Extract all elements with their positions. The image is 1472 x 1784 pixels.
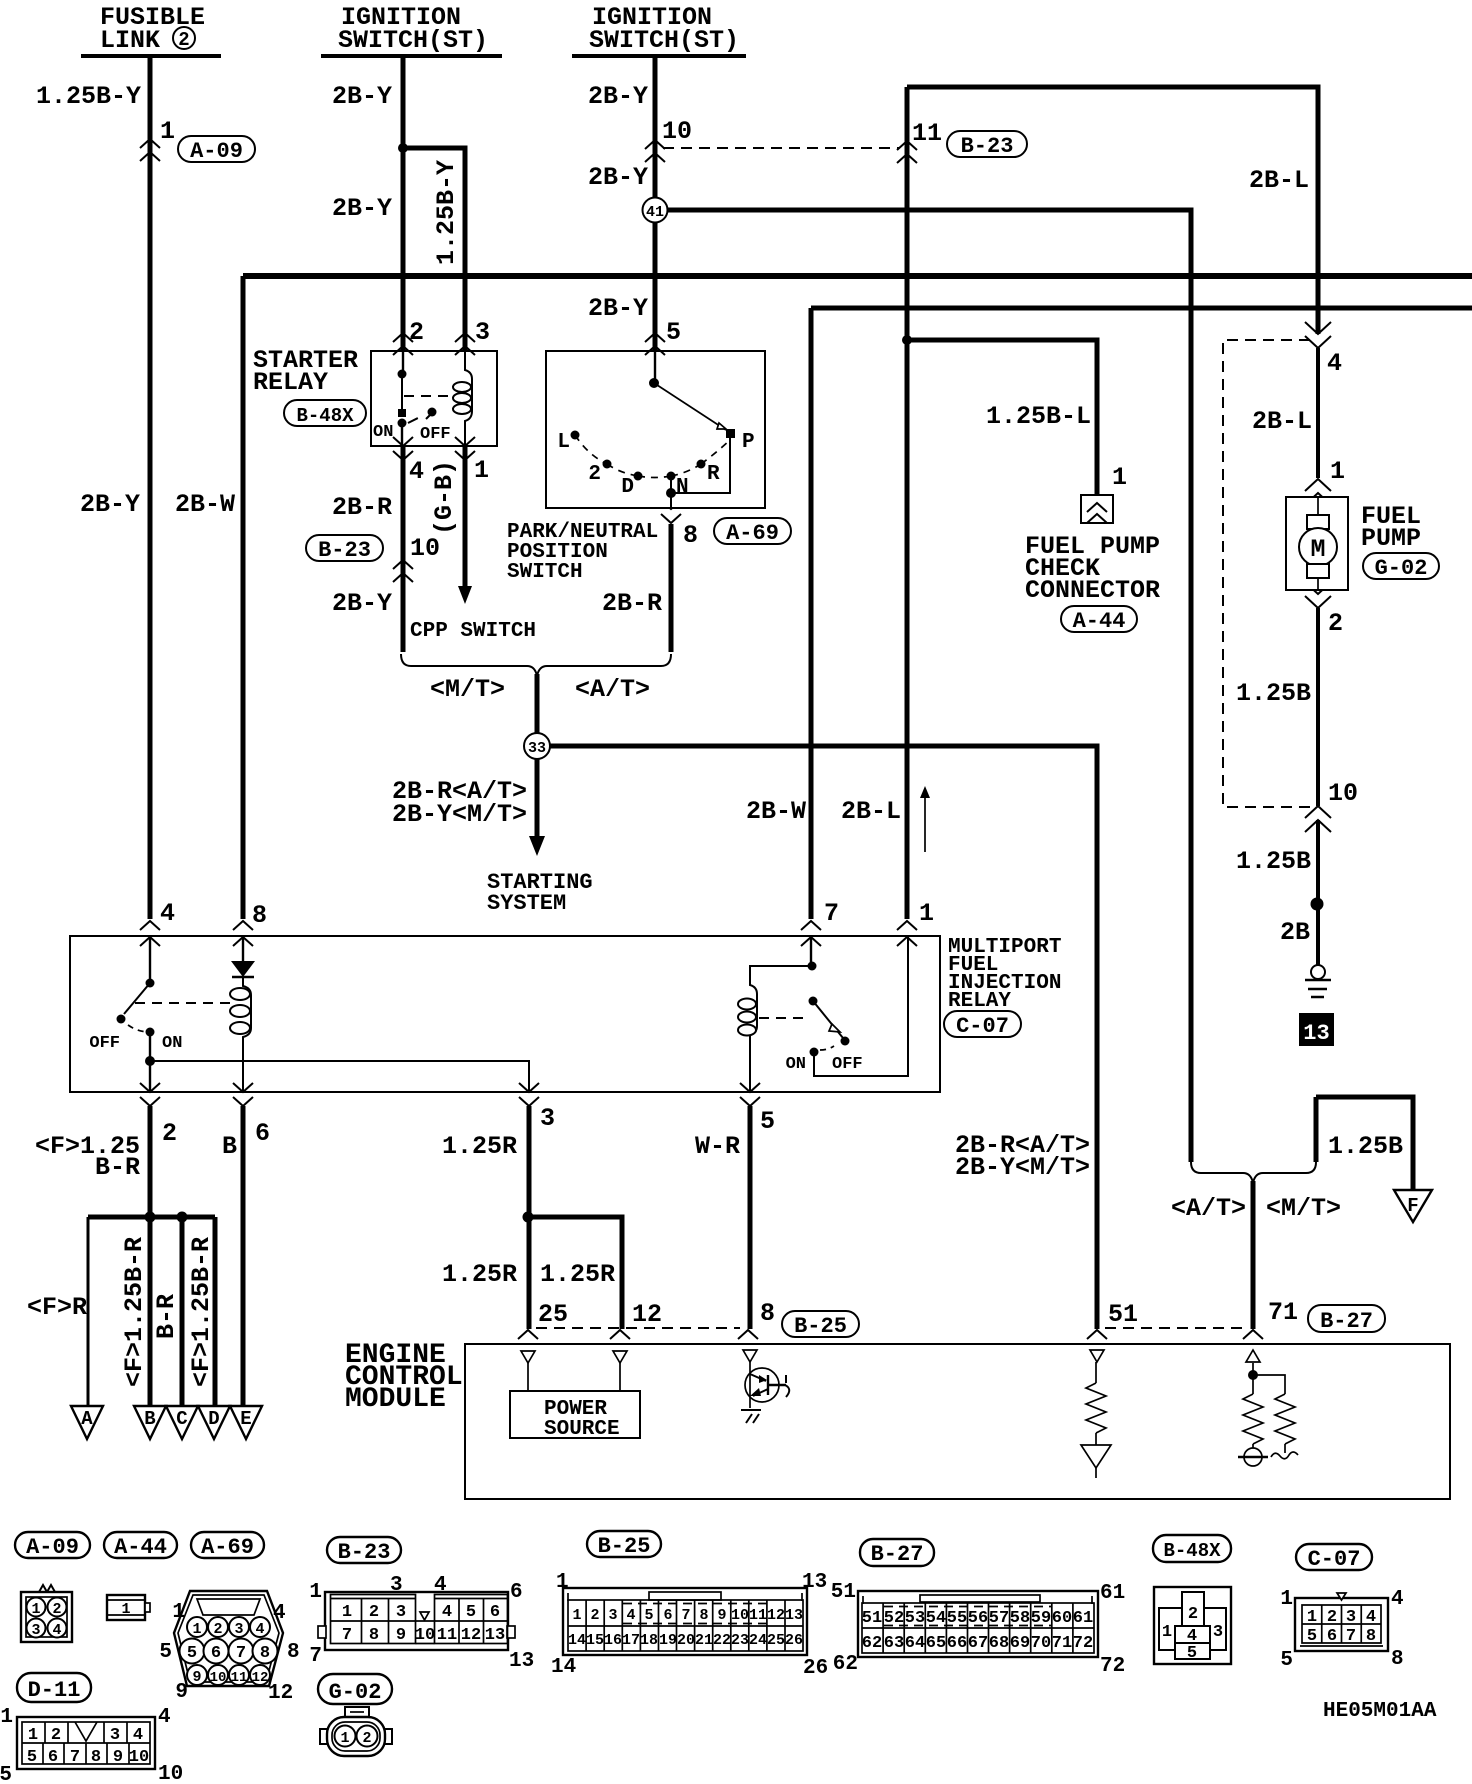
- svg-text:2: 2: [362, 1730, 371, 1747]
- svg-text:3: 3: [1213, 1623, 1223, 1642]
- svg-text:25: 25: [538, 1300, 568, 1329]
- svg-text:26: 26: [785, 1632, 803, 1649]
- svg-text:57: 57: [989, 1609, 1009, 1628]
- svg-text:66: 66: [947, 1634, 967, 1653]
- svg-text:17: 17: [622, 1632, 640, 1649]
- svg-text:4: 4: [52, 1622, 61, 1639]
- svg-text:D-11: D-11: [28, 1678, 81, 1703]
- svg-text:A-44: A-44: [1073, 609, 1126, 634]
- svg-text:5: 5: [159, 1641, 172, 1664]
- svg-text:6: 6: [490, 1603, 500, 1622]
- svg-text:W-R: W-R: [695, 1132, 740, 1161]
- svg-text:7: 7: [681, 1607, 690, 1624]
- svg-text:LINK: LINK: [100, 26, 160, 55]
- svg-text:1: 1: [1280, 1588, 1293, 1611]
- svg-text:2: 2: [178, 29, 189, 51]
- svg-text:7: 7: [342, 1626, 352, 1645]
- svg-text:20: 20: [677, 1632, 695, 1649]
- svg-text:3: 3: [608, 1607, 617, 1624]
- svg-text:3: 3: [396, 1603, 406, 1622]
- svg-text:MODULE: MODULE: [345, 1384, 446, 1415]
- svg-text:8: 8: [260, 1644, 270, 1663]
- svg-text:M: M: [1310, 535, 1325, 564]
- svg-text:SWITCH(ST): SWITCH(ST): [589, 26, 739, 55]
- svg-text:10: 10: [158, 1763, 183, 1784]
- svg-text:2B-Y: 2B-Y: [588, 82, 648, 111]
- svg-text:5: 5: [666, 318, 681, 347]
- svg-text:11: 11: [912, 119, 942, 148]
- svg-text:B-27: B-27: [1320, 1309, 1373, 1334]
- svg-text:1: 1: [340, 1730, 349, 1747]
- svg-text:19: 19: [659, 1632, 677, 1649]
- svg-text:10: 10: [410, 534, 440, 563]
- svg-text:3: 3: [31, 1622, 40, 1639]
- svg-text:D: D: [621, 476, 634, 499]
- svg-text:SWITCH: SWITCH: [507, 561, 583, 584]
- svg-text:10: 10: [1328, 779, 1358, 808]
- svg-text:C: C: [176, 1408, 187, 1430]
- svg-text:L: L: [557, 431, 570, 454]
- svg-text:A-69: A-69: [726, 521, 779, 546]
- svg-text:2: 2: [213, 1621, 222, 1638]
- svg-text:26: 26: [803, 1657, 828, 1680]
- svg-text:2B-Y: 2B-Y: [80, 490, 140, 519]
- svg-text:4: 4: [442, 1603, 452, 1622]
- svg-text:SOURCE: SOURCE: [544, 1418, 620, 1441]
- svg-text:8: 8: [252, 901, 267, 930]
- svg-text:6: 6: [1327, 1627, 1337, 1646]
- svg-text:15: 15: [586, 1632, 604, 1649]
- svg-text:2B-W: 2B-W: [746, 797, 806, 826]
- svg-text:4: 4: [133, 1726, 143, 1745]
- svg-text:7: 7: [309, 1645, 322, 1668]
- svg-text:HE05M01AA: HE05M01AA: [1323, 1700, 1437, 1723]
- svg-text:4: 4: [273, 1602, 286, 1625]
- svg-text:B-23: B-23: [961, 134, 1014, 159]
- svg-text:B-27: B-27: [871, 1542, 924, 1567]
- svg-text:59: 59: [1031, 1609, 1051, 1628]
- svg-text:1.25B: 1.25B: [1328, 1132, 1403, 1161]
- svg-text:1: 1: [474, 456, 489, 485]
- svg-text:4: 4: [1391, 1588, 1404, 1611]
- svg-text:65: 65: [926, 1634, 946, 1653]
- svg-text:SWITCH(ST): SWITCH(ST): [338, 26, 488, 55]
- svg-text:6: 6: [48, 1748, 58, 1767]
- svg-text:1.25B: 1.25B: [1236, 847, 1311, 876]
- svg-text:1: 1: [309, 1581, 322, 1604]
- svg-text:B-R: B-R: [152, 1294, 181, 1339]
- svg-text:1: 1: [192, 1621, 201, 1638]
- svg-text:13: 13: [509, 1650, 534, 1673]
- svg-text:2: 2: [409, 318, 424, 347]
- svg-text:9: 9: [717, 1607, 726, 1624]
- svg-text:60: 60: [1052, 1609, 1072, 1628]
- svg-text:63: 63: [884, 1634, 904, 1653]
- svg-text:41: 41: [646, 204, 664, 221]
- svg-text:11: 11: [231, 1670, 248, 1686]
- svg-text:ON: ON: [786, 1055, 806, 1074]
- svg-text:10: 10: [210, 1670, 227, 1686]
- svg-text:13: 13: [802, 1571, 827, 1594]
- svg-text:2: 2: [590, 1607, 599, 1624]
- svg-text:6: 6: [663, 1607, 672, 1624]
- svg-text:33: 33: [528, 740, 546, 757]
- svg-text:1: 1: [28, 1726, 38, 1745]
- svg-text:4: 4: [158, 1706, 171, 1729]
- svg-text:71: 71: [1052, 1634, 1072, 1653]
- svg-text:18: 18: [640, 1632, 658, 1649]
- svg-text:1: 1: [1330, 457, 1345, 486]
- svg-text:PUMP: PUMP: [1361, 524, 1421, 553]
- svg-text:9: 9: [192, 1669, 201, 1686]
- svg-text:E: E: [240, 1408, 251, 1430]
- svg-text:2B-Y<M/T>: 2B-Y<M/T>: [955, 1153, 1090, 1182]
- svg-text:23: 23: [731, 1632, 749, 1649]
- svg-text:<M/T>: <M/T>: [430, 675, 505, 704]
- svg-text:61: 61: [1073, 1609, 1093, 1628]
- svg-text:68: 68: [989, 1634, 1009, 1653]
- svg-text:ON: ON: [373, 423, 393, 442]
- svg-text:2: 2: [162, 1119, 177, 1148]
- svg-text:SYSTEM: SYSTEM: [487, 891, 566, 916]
- svg-text:RELAY: RELAY: [948, 990, 1011, 1013]
- svg-text:8: 8: [1391, 1648, 1404, 1671]
- svg-text:4: 4: [160, 899, 175, 928]
- svg-text:8: 8: [1366, 1627, 1376, 1646]
- svg-text:5: 5: [1187, 1644, 1197, 1663]
- svg-text:24: 24: [749, 1632, 767, 1649]
- svg-text:1.25B-Y: 1.25B-Y: [432, 160, 461, 265]
- svg-text:3: 3: [475, 318, 490, 347]
- svg-text:2B-Y: 2B-Y: [588, 294, 648, 323]
- svg-text:CPP SWITCH: CPP SWITCH: [410, 620, 536, 643]
- svg-text:5: 5: [760, 1107, 775, 1136]
- svg-text:2B-Y: 2B-Y: [588, 163, 648, 192]
- svg-text:72: 72: [1073, 1634, 1093, 1653]
- svg-text:5: 5: [187, 1644, 197, 1663]
- svg-text:16: 16: [604, 1632, 622, 1649]
- svg-text:6: 6: [255, 1119, 270, 1148]
- svg-text:1.25B: 1.25B: [1236, 679, 1311, 708]
- svg-text:56: 56: [968, 1609, 988, 1628]
- svg-text:RELAY: RELAY: [253, 368, 328, 397]
- svg-text:62: 62: [862, 1634, 882, 1653]
- svg-text:67: 67: [968, 1634, 988, 1653]
- svg-text:B-48X: B-48X: [296, 405, 354, 427]
- svg-text:<F>1.25B-R: <F>1.25B-R: [120, 1237, 149, 1387]
- svg-text:<A/T>: <A/T>: [1171, 1194, 1246, 1223]
- svg-text:62: 62: [833, 1653, 858, 1676]
- svg-text:1.25B-Y: 1.25B-Y: [36, 82, 141, 111]
- svg-text:1: 1: [919, 899, 934, 928]
- svg-text:OFF: OFF: [89, 1034, 120, 1053]
- svg-text:2B-R: 2B-R: [332, 493, 392, 522]
- svg-text:2: 2: [588, 463, 601, 486]
- svg-text:<A/T>: <A/T>: [575, 675, 650, 704]
- svg-text:3: 3: [540, 1104, 555, 1133]
- svg-text:1: 1: [342, 1603, 352, 1622]
- svg-text:51: 51: [1108, 1300, 1138, 1329]
- svg-text:C-07: C-07: [1308, 1547, 1361, 1572]
- svg-text:P: P: [742, 431, 755, 454]
- svg-text:1: 1: [1112, 463, 1127, 492]
- svg-text:4: 4: [434, 1574, 447, 1597]
- svg-text:2B-Y: 2B-Y: [332, 194, 392, 223]
- svg-text:7: 7: [70, 1748, 80, 1767]
- svg-text:2: 2: [51, 1726, 61, 1745]
- svg-text:1.25R: 1.25R: [442, 1132, 517, 1161]
- svg-text:2: 2: [52, 1601, 61, 1618]
- svg-text:58: 58: [1010, 1609, 1030, 1628]
- svg-text:<M/T>: <M/T>: [1266, 1194, 1341, 1223]
- svg-text:10: 10: [662, 117, 692, 146]
- svg-text:C-07: C-07: [956, 1014, 1009, 1039]
- svg-text:8: 8: [287, 1641, 300, 1664]
- svg-text:A-44: A-44: [114, 1535, 167, 1560]
- svg-text:6: 6: [211, 1644, 221, 1663]
- svg-text:13: 13: [785, 1607, 803, 1624]
- svg-text:54: 54: [926, 1609, 946, 1628]
- svg-text:7: 7: [1346, 1627, 1356, 1646]
- svg-text:B: B: [222, 1132, 237, 1161]
- svg-text:5: 5: [0, 1764, 12, 1784]
- svg-text:F: F: [1407, 1195, 1418, 1217]
- svg-text:10: 10: [731, 1607, 749, 1624]
- svg-text:10: 10: [415, 1626, 435, 1645]
- svg-text:1.25R: 1.25R: [540, 1260, 615, 1289]
- svg-text:21: 21: [695, 1632, 713, 1649]
- svg-text:7: 7: [824, 899, 839, 928]
- svg-text:1: 1: [556, 1571, 569, 1594]
- svg-text:A-09: A-09: [26, 1535, 79, 1560]
- svg-text:9: 9: [113, 1748, 123, 1767]
- svg-text:2B-Y: 2B-Y: [332, 589, 392, 618]
- svg-text:2: 2: [1328, 609, 1343, 638]
- svg-text:OFF: OFF: [420, 425, 451, 444]
- svg-text:51: 51: [862, 1609, 882, 1628]
- svg-text:64: 64: [905, 1634, 925, 1653]
- svg-text:9: 9: [396, 1626, 406, 1645]
- svg-text:13: 13: [485, 1626, 505, 1645]
- svg-text:5: 5: [27, 1748, 37, 1767]
- svg-text:4: 4: [409, 457, 424, 486]
- svg-text:4: 4: [1366, 1608, 1376, 1627]
- svg-text:52: 52: [884, 1609, 904, 1628]
- svg-text:A-69: A-69: [201, 1535, 254, 1560]
- svg-text:5: 5: [1307, 1627, 1317, 1646]
- svg-text:B-23: B-23: [318, 538, 371, 563]
- svg-text:55: 55: [947, 1609, 967, 1628]
- svg-text:2B-L: 2B-L: [1249, 166, 1309, 195]
- svg-text:2: 2: [1327, 1608, 1337, 1627]
- svg-text:12: 12: [632, 1300, 662, 1329]
- svg-text:14: 14: [568, 1632, 586, 1649]
- svg-text:OFF: OFF: [832, 1055, 863, 1074]
- svg-text:1.25B-L: 1.25B-L: [986, 402, 1091, 431]
- svg-text:22: 22: [713, 1632, 731, 1649]
- svg-text:8: 8: [91, 1748, 101, 1767]
- svg-text:12: 12: [252, 1670, 269, 1686]
- svg-text:D: D: [208, 1408, 219, 1430]
- svg-text:14: 14: [551, 1656, 576, 1679]
- svg-text:61: 61: [1100, 1582, 1125, 1605]
- svg-text:1.25R: 1.25R: [442, 1260, 517, 1289]
- svg-text:B-48X: B-48X: [1163, 1540, 1221, 1562]
- svg-text:53: 53: [905, 1609, 925, 1628]
- svg-text:ON: ON: [162, 1034, 182, 1053]
- svg-text:1: 1: [572, 1607, 581, 1624]
- svg-text:13: 13: [1303, 1021, 1329, 1046]
- svg-text:2B-Y<M/T>: 2B-Y<M/T>: [392, 800, 527, 829]
- svg-text:8: 8: [369, 1626, 379, 1645]
- svg-text:72: 72: [1100, 1655, 1125, 1678]
- svg-text:8: 8: [699, 1607, 708, 1624]
- svg-text:71: 71: [1268, 1298, 1298, 1327]
- svg-text:12: 12: [767, 1607, 785, 1624]
- svg-text:B: B: [144, 1408, 155, 1430]
- svg-text:2B-W: 2B-W: [175, 490, 235, 519]
- svg-text:A: A: [81, 1408, 93, 1430]
- svg-text:69: 69: [1010, 1634, 1030, 1653]
- svg-text:(G-B): (G-B): [430, 460, 459, 535]
- svg-text:5: 5: [466, 1603, 476, 1622]
- svg-text:7: 7: [236, 1644, 246, 1663]
- svg-text:1: 1: [1162, 1623, 1172, 1642]
- svg-text:B-25: B-25: [598, 1534, 651, 1559]
- svg-text:1: 1: [1307, 1608, 1317, 1627]
- svg-text:2B-R: 2B-R: [602, 589, 662, 618]
- svg-text:2B-L: 2B-L: [1252, 407, 1312, 436]
- svg-text:4: 4: [1327, 349, 1342, 378]
- svg-text:5: 5: [1280, 1649, 1293, 1672]
- svg-text:B-23: B-23: [338, 1540, 391, 1565]
- svg-text:25: 25: [767, 1632, 785, 1649]
- svg-text:3: 3: [390, 1574, 403, 1597]
- svg-text:B-25: B-25: [794, 1314, 847, 1339]
- svg-text:G-02: G-02: [1375, 556, 1428, 581]
- svg-text:CONNECTOR: CONNECTOR: [1025, 576, 1160, 605]
- svg-text:8: 8: [760, 1299, 775, 1328]
- svg-text:12: 12: [461, 1626, 481, 1645]
- svg-text:5: 5: [644, 1607, 653, 1624]
- svg-text:2: 2: [1188, 1605, 1198, 1624]
- svg-text:2B-L: 2B-L: [841, 797, 901, 826]
- svg-text:4: 4: [626, 1607, 635, 1624]
- svg-text:3: 3: [110, 1726, 120, 1745]
- svg-text:R: R: [707, 463, 720, 486]
- svg-text:A-09: A-09: [190, 139, 243, 164]
- svg-text:11: 11: [749, 1607, 767, 1624]
- svg-text:G-02: G-02: [329, 1680, 382, 1705]
- svg-text:9: 9: [175, 1681, 188, 1704]
- svg-text:4: 4: [255, 1621, 264, 1638]
- svg-text:1: 1: [121, 1601, 130, 1618]
- svg-text:3: 3: [234, 1621, 243, 1638]
- svg-text:51: 51: [831, 1581, 856, 1604]
- svg-text:10: 10: [129, 1748, 149, 1767]
- svg-text:1: 1: [172, 1601, 185, 1624]
- svg-text:8: 8: [683, 521, 698, 550]
- svg-text:N: N: [676, 476, 689, 499]
- svg-text:70: 70: [1031, 1634, 1051, 1653]
- svg-text:2: 2: [369, 1603, 379, 1622]
- svg-text:11: 11: [437, 1626, 457, 1645]
- svg-text:2B: 2B: [1280, 918, 1310, 947]
- svg-text:6: 6: [510, 1581, 523, 1604]
- svg-text:12: 12: [268, 1682, 293, 1705]
- svg-text:1: 1: [31, 1601, 40, 1618]
- svg-text:1: 1: [160, 117, 175, 146]
- svg-text:1: 1: [0, 1706, 13, 1729]
- svg-text:B-R: B-R: [95, 1153, 140, 1182]
- svg-text:3: 3: [1346, 1608, 1356, 1627]
- svg-text:2B-Y: 2B-Y: [332, 82, 392, 111]
- svg-text:<F>R: <F>R: [27, 1293, 87, 1322]
- svg-text:<F>1.25B-R: <F>1.25B-R: [187, 1237, 216, 1387]
